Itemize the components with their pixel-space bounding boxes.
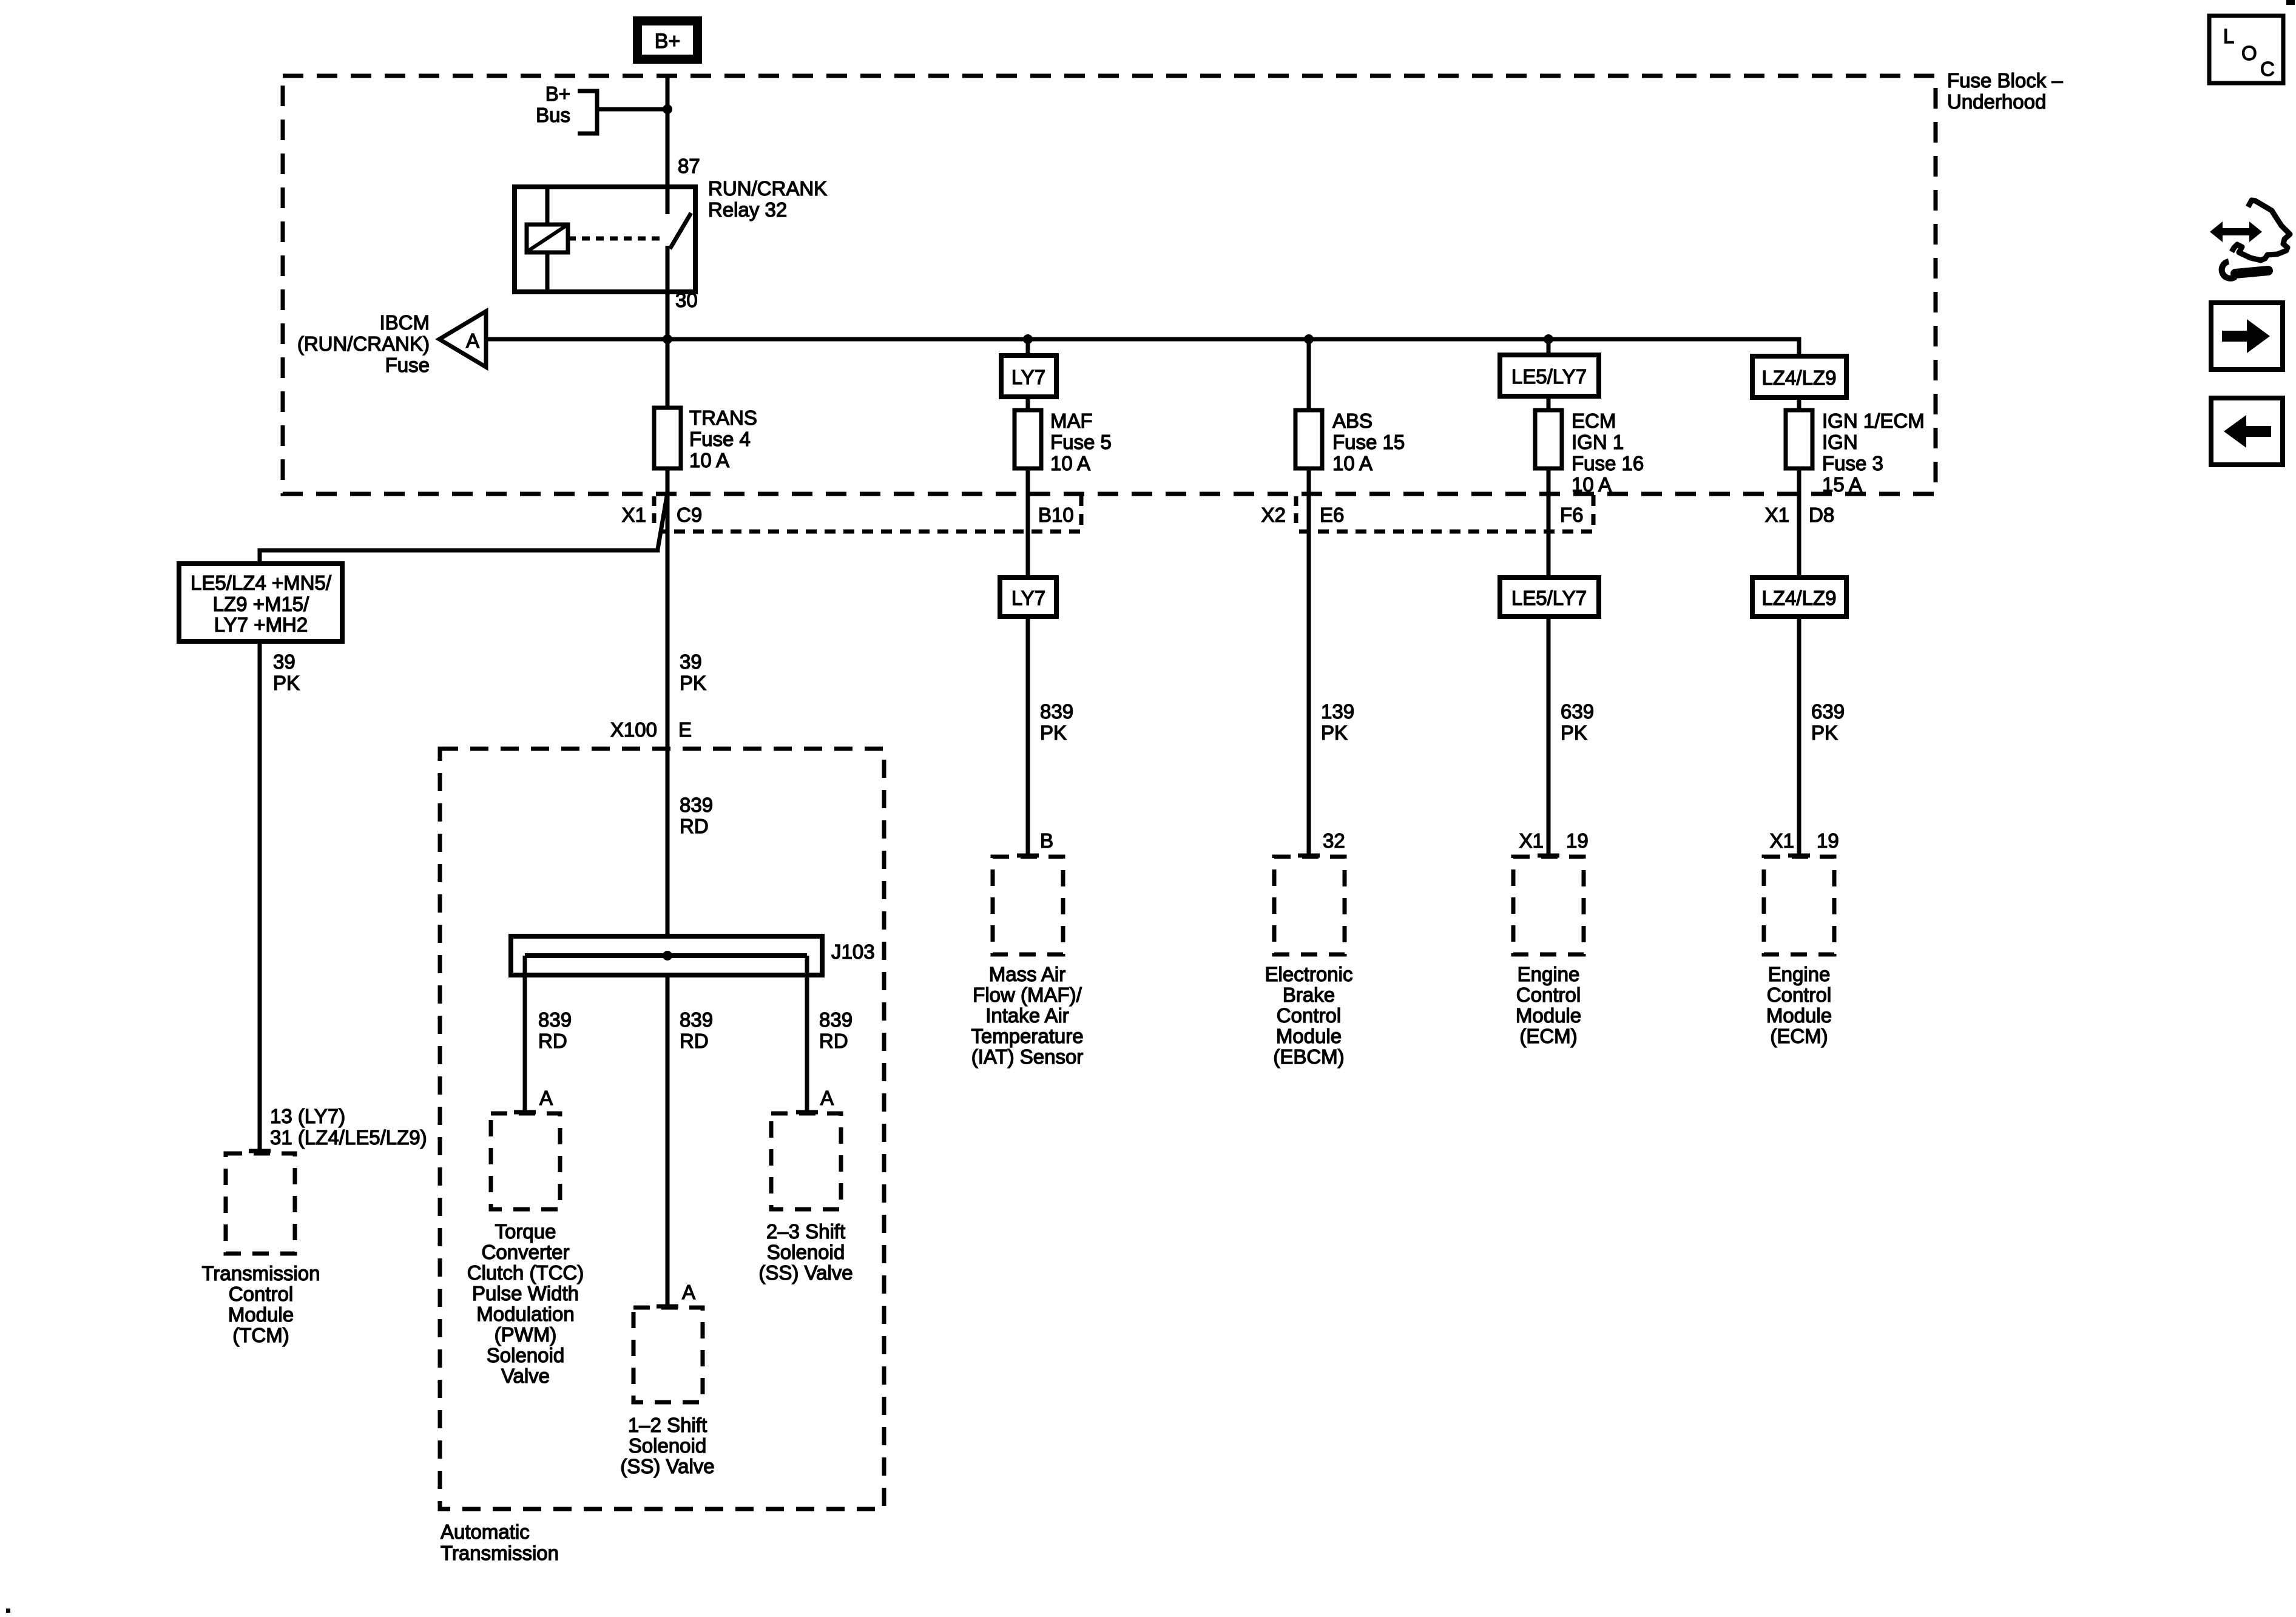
engine code box LY7 (top) [1001, 356, 1056, 397]
connector E6-F6 dashed outline [1299, 495, 1593, 532]
svg-text:O: O [2241, 42, 2257, 64]
svg-text:(IAT) Sensor: (IAT) Sensor [971, 1045, 1084, 1068]
svg-text:Pulse Width: Pulse Width [472, 1282, 579, 1305]
svg-text:Module: Module [1766, 1004, 1832, 1027]
svg-text:X1: X1 [1770, 829, 1794, 852]
svg-text:X1: X1 [1519, 829, 1544, 852]
engine code box LE5/LY7 (lower) [1500, 578, 1599, 616]
relay RUN/CRANK Relay 32 box [515, 187, 695, 292]
relay switch contact [666, 187, 670, 214]
svg-text:(RUN/CRANK): (RUN/CRANK) [297, 333, 430, 355]
svg-text:PK: PK [680, 672, 706, 694]
svg-text:(ECM): (ECM) [1770, 1025, 1828, 1047]
svg-text:B: B [1040, 829, 1053, 852]
svg-text:Control: Control [1767, 984, 1831, 1006]
svg-text:Intake Air: Intake Air [985, 1004, 1069, 1027]
svg-text:30: 30 [675, 289, 698, 311]
engine code box LZ4/LZ9 (lower) [1752, 578, 1846, 616]
B+ power terminal box [638, 21, 698, 59]
wire ABS fuse to EBCM [1307, 468, 1311, 856]
wire B+ to relay pin 87 [666, 74, 670, 187]
svg-text:C9: C9 [677, 504, 702, 526]
svg-text:PK: PK [1040, 721, 1067, 744]
svg-text:X100: X100 [610, 718, 657, 741]
svg-text:LE5/LY7: LE5/LY7 [1511, 365, 1587, 388]
hand/service icon wrench [2235, 271, 2268, 274]
branch wire to TCM circuit [260, 493, 667, 564]
svg-text:Control: Control [229, 1283, 293, 1305]
svg-text:Module: Module [228, 1303, 294, 1326]
svg-text:A: A [682, 1281, 695, 1303]
svg-text:15 A: 15 A [1822, 473, 1862, 496]
svg-text:Fuse Block –: Fuse Block – [1947, 69, 2063, 92]
svg-text:IBCM: IBCM [380, 311, 430, 334]
svg-text:PK: PK [1321, 721, 1348, 744]
wire LE5/LY7 lower to ECM [1547, 616, 1551, 856]
wire bus drop MAF column [1026, 339, 1030, 356]
svg-text:639: 639 [1811, 700, 1845, 723]
svg-text:32: 32 [1323, 829, 1345, 852]
svg-text:139: 139 [1321, 700, 1354, 723]
wire bus drop ECM column [1547, 339, 1551, 355]
ECM 2 dashed box [1764, 857, 1834, 954]
svg-text:Bus: Bus [536, 104, 570, 126]
svg-text:LY7: LY7 [1011, 587, 1045, 609]
wire relay pin 30 down [666, 292, 670, 339]
svg-text:LY7 +MH2: LY7 +MH2 [214, 613, 308, 636]
svg-text:Transmission: Transmission [202, 1262, 320, 1284]
svg-text:Solenoid: Solenoid [767, 1241, 845, 1263]
splice pack J103 [511, 936, 822, 975]
junction at TRANS column [663, 334, 672, 344]
svg-text:(ECM): (ECM) [1519, 1025, 1577, 1047]
svg-text:Fuse: Fuse [385, 354, 430, 376]
svg-text:Flow (MAF)/: Flow (MAF)/ [973, 984, 1082, 1006]
svg-text:(PWM): (PWM) [495, 1323, 557, 1346]
svg-text:IGN 1/ECM: IGN 1/ECM [1822, 410, 1925, 432]
junction at MAF column [1023, 334, 1033, 344]
wire TRANS fuse to connector C9 [666, 468, 670, 532]
1-2 shift solenoid dashed box [633, 1308, 703, 1402]
wire B+ Bus to main feed [597, 107, 667, 112]
svg-text:B+: B+ [655, 30, 681, 53]
svg-text:ECM: ECM [1572, 410, 1616, 432]
svg-text:C: C [2260, 58, 2275, 80]
svg-text:39: 39 [273, 650, 295, 673]
svg-text:Modulation: Modulation [476, 1303, 574, 1325]
wire ECM fuse through connector F6 [1547, 468, 1551, 578]
svg-text:839: 839 [819, 1008, 853, 1031]
svg-text:E6: E6 [1320, 504, 1344, 526]
fuse ABS Fuse 15 [1295, 410, 1322, 468]
svg-text:LE5/LY7: LE5/LY7 [1511, 587, 1587, 609]
IBCM (RUN/CRANK) Fuse off-page arrow [439, 311, 486, 367]
fuse IGN 1/ECM IGN Fuse 3 [1786, 410, 1812, 468]
svg-text:39: 39 [680, 650, 702, 673]
svg-text:Module: Module [1516, 1004, 1581, 1027]
terminal bar TCM [249, 1149, 271, 1153]
svg-text:X2: X2 [1261, 504, 1286, 526]
svg-text:Mass Air: Mass Air [989, 963, 1066, 985]
svg-text:Relay 32: Relay 32 [708, 198, 787, 221]
svg-text:Valve: Valve [501, 1365, 550, 1387]
wire bus to TRANS fuse [666, 339, 670, 410]
hand/service icon double arrow [2210, 221, 2262, 242]
svg-text:Underhood: Underhood [1947, 90, 2046, 113]
svg-text:IGN 1: IGN 1 [1572, 431, 1624, 453]
terminal bar 1-2 shift [657, 1305, 678, 1309]
svg-text:X1: X1 [622, 504, 646, 526]
svg-text:IGN: IGN [1822, 431, 1858, 453]
svg-text:RD: RD [680, 815, 709, 837]
wire circuit 39 PK to TCM [258, 641, 262, 1151]
svg-text:B+: B+ [545, 83, 570, 105]
svg-text:(EBCM): (EBCM) [1273, 1045, 1344, 1068]
svg-text:13 (LY7): 13 (LY7) [270, 1105, 345, 1127]
hand/service icon glove outline [2232, 200, 2290, 260]
svg-text:Control: Control [1516, 984, 1581, 1006]
svg-text:MAF: MAF [1050, 410, 1093, 432]
junction at J103 [663, 951, 672, 960]
svg-text:Module: Module [1276, 1025, 1342, 1047]
ECM dashed box [1513, 857, 1584, 954]
svg-text:A: A [539, 1087, 553, 1109]
svg-text:1–2 Shift: 1–2 Shift [628, 1414, 707, 1436]
fuse MAF Fuse 5 [1015, 410, 1041, 468]
svg-text:Converter: Converter [482, 1241, 570, 1263]
svg-text:LZ4/LZ9: LZ4/LZ9 [1762, 587, 1837, 609]
svg-text:Automatic: Automatic [441, 1521, 530, 1543]
svg-text:87: 87 [678, 155, 700, 177]
wire IGN fuse through connector D8 [1797, 468, 1801, 578]
wire LY7 box to MAF fuse [1026, 397, 1030, 411]
automatic transmission dashed box [440, 749, 884, 1509]
svg-text:PK: PK [1811, 721, 1838, 744]
svg-text:839: 839 [538, 1008, 572, 1031]
svg-text:19: 19 [1817, 829, 1839, 852]
wire MAF fuse through connector B10 [1026, 468, 1030, 578]
wire LE5/LY7 box to ECM fuse [1547, 396, 1551, 411]
svg-text:D8: D8 [1809, 504, 1834, 526]
terminal bar MAF sensor [1017, 854, 1039, 858]
relay coil leads [545, 187, 550, 224]
svg-text:X1: X1 [1765, 504, 1789, 526]
svg-text:RUN/CRANK: RUN/CRANK [708, 177, 827, 200]
svg-text:RD: RD [680, 1030, 709, 1052]
junction B+ bus [663, 104, 672, 114]
svg-text:Clutch (TCC): Clutch (TCC) [467, 1261, 584, 1284]
svg-text:10 A: 10 A [1332, 452, 1373, 474]
svg-text:RD: RD [538, 1030, 567, 1052]
svg-text:Solenoid: Solenoid [487, 1344, 564, 1366]
engine application box LE5/LZ4+MN5 [179, 564, 342, 641]
svg-text:TRANS: TRANS [689, 407, 757, 429]
svg-text:Fuse 5: Fuse 5 [1050, 431, 1112, 453]
svg-text:19: 19 [1566, 829, 1589, 852]
svg-text:Control: Control [1277, 1004, 1341, 1027]
2-3 shift solenoid dashed box [771, 1113, 841, 1209]
relay coil [527, 224, 568, 252]
svg-text:(SS) Valve: (SS) Valve [758, 1261, 853, 1284]
svg-text:B10: B10 [1038, 504, 1074, 526]
page artifact mark top right [2286, 0, 2295, 5]
svg-text:PK: PK [1561, 721, 1587, 744]
svg-text:Electronic: Electronic [1265, 963, 1353, 985]
svg-text:839: 839 [1040, 700, 1073, 723]
svg-text:LZ4/LZ9: LZ4/LZ9 [1762, 366, 1837, 389]
B+ Bus tap bracket [578, 91, 597, 133]
terminal bar EBCM [1298, 854, 1320, 858]
svg-text:10 A: 10 A [1572, 473, 1612, 496]
svg-text:L: L [2223, 25, 2234, 47]
junction at ABS column [1304, 334, 1314, 344]
fuse ECM IGN 1 Fuse 16 [1535, 410, 1562, 468]
svg-text:RD: RD [819, 1030, 848, 1052]
svg-text:Engine: Engine [1518, 963, 1580, 985]
svg-text:J103: J103 [831, 940, 875, 963]
svg-text:639: 639 [1561, 700, 1594, 723]
svg-text:A: A [466, 329, 479, 352]
forward arrow box [2211, 303, 2283, 370]
wire LZ4/LZ9 lower to ECM [1797, 616, 1801, 856]
svg-text:Fuse 4: Fuse 4 [689, 428, 751, 450]
relay actuator dashed link [568, 237, 664, 241]
wire J103 to 1-2 solenoid [666, 975, 670, 1305]
svg-text:LY7: LY7 [1011, 366, 1045, 388]
wire LY7 lower to MAF sensor [1026, 616, 1030, 856]
wire ignition feed bus [486, 339, 1799, 356]
wire J103 to 2-3 solenoid [805, 956, 809, 1111]
fuse TRANS Fuse 4 [654, 408, 681, 468]
svg-text:31 (LZ4/LE5/LZ9): 31 (LZ4/LE5/LZ9) [270, 1126, 427, 1149]
svg-text:Transmission: Transmission [441, 1542, 559, 1564]
terminal bar ECM [1538, 854, 1559, 858]
svg-text:2–3 Shift: 2–3 Shift [766, 1220, 845, 1243]
svg-text:LZ9 +M15/: LZ9 +M15/ [213, 593, 309, 615]
svg-text:Temperature: Temperature [971, 1025, 1083, 1047]
svg-text:Fuse 16: Fuse 16 [1572, 452, 1644, 474]
wire bus drop ABS column [1307, 339, 1311, 410]
svg-text:Engine: Engine [1768, 963, 1831, 985]
connector X1 dashed tick [652, 496, 657, 529]
wire LZ4/LZ9 box to IGN fuse [1797, 397, 1801, 411]
svg-text:(SS) Valve: (SS) Valve [620, 1455, 714, 1477]
svg-text:Fuse 15: Fuse 15 [1332, 431, 1405, 453]
EBCM dashed box [1274, 857, 1345, 954]
wire J103 to TCC solenoid [523, 956, 527, 1111]
svg-text:Torque: Torque [495, 1220, 556, 1243]
back arrow box [2211, 398, 2283, 465]
LOC legend box [2209, 16, 2283, 83]
engine code box LE5/LY7 (top) [1500, 355, 1599, 396]
svg-text:E: E [678, 718, 692, 741]
terminal bar ECM 2 [1788, 854, 1810, 858]
svg-text:839: 839 [680, 1008, 713, 1031]
engine code box LY7 (lower) [1000, 578, 1056, 616]
svg-text:A: A [820, 1087, 834, 1109]
svg-text:LE5/LZ4 +MN5/: LE5/LZ4 +MN5/ [191, 572, 332, 594]
wire TRANS C9 to X100 [666, 532, 670, 936]
junction at ECM column [1544, 334, 1553, 344]
TCC solenoid dashed box [491, 1113, 560, 1209]
terminal bar TCC [514, 1110, 536, 1115]
MAF/IAT sensor dashed box [993, 857, 1063, 954]
svg-text:PK: PK [273, 672, 300, 694]
svg-text:(TCM): (TCM) [232, 1324, 289, 1346]
svg-text:Fuse 3: Fuse 3 [1822, 452, 1883, 474]
connector X2 dashed tick [1294, 496, 1298, 529]
page artifact dot bottom left [6, 1609, 10, 1613]
svg-text:10 A: 10 A [689, 449, 729, 471]
svg-text:Solenoid: Solenoid [629, 1434, 706, 1457]
terminal bar 2-3 shift [796, 1110, 818, 1115]
svg-text:10 A: 10 A [1050, 452, 1090, 474]
connector C9-B10 dashed outline [661, 495, 1081, 532]
svg-text:839: 839 [680, 794, 713, 816]
svg-text:ABS: ABS [1332, 410, 1373, 432]
svg-text:Brake: Brake [1283, 984, 1335, 1006]
svg-text:F6: F6 [1560, 504, 1584, 526]
TCM dashed box [226, 1153, 295, 1254]
fuse block underhood dashed box [283, 76, 1936, 494]
engine code box LZ4/LZ9 (top) [1752, 356, 1846, 397]
